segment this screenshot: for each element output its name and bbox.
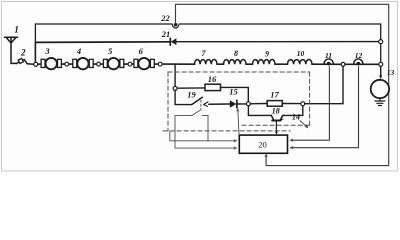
detector 6 [134, 58, 154, 69]
inductor L9 [253, 60, 276, 65]
box 20 [239, 135, 287, 153]
tap 11 (loop with tap dot) [324, 59, 333, 64]
detector 4 [73, 58, 93, 69]
wire S19b right terminal down to box input A [207, 115, 209, 140]
detector 3 [41, 58, 61, 69]
node a2 [97, 62, 101, 66]
wire block-14 output to box 20 left input 1 [170, 131, 236, 141]
svg-text:4: 4 [76, 46, 81, 56]
node a5 (between taps) [341, 62, 345, 66]
resistor R17 [267, 101, 282, 107]
svg-text:18: 18 [272, 107, 280, 116]
linkage dashes S19 to S19b [200, 100, 202, 111]
svg-text:11: 11 [325, 51, 332, 60]
dashed block 14 left edge [167, 72, 169, 131]
dashed block 14 top edge [168, 71, 310, 73]
wire antenna to switch [11, 62, 16, 64]
wire diode bus (line C) [35, 41, 170, 44]
inductor L7 [195, 60, 218, 65]
svg-text:17: 17 [270, 90, 279, 100]
svg-text:20: 20 [258, 139, 267, 149]
wire upper bus (line B) [35, 23, 171, 25]
transistor 18 [271, 115, 283, 120]
svg-text:15: 15 [229, 87, 238, 97]
inductor L8 [224, 60, 247, 65]
svg-text:9: 9 [265, 49, 269, 58]
wire tap11 to box 20 right input 1 [292, 67, 330, 141]
wire junction drop at x=175 [174, 64, 176, 86]
diode VD15 [230, 100, 247, 107]
dashed block 14 right edge [309, 72, 311, 125]
node a1 [65, 62, 69, 66]
svg-text:2: 2 [20, 48, 26, 58]
svg-text:13: 13 [387, 68, 395, 77]
wire arrow into equivalent antenna 13 [380, 66, 382, 76]
wire tap12 to box 20 right input 2 [292, 67, 359, 148]
switch S19b (linked auxiliary contact) [175, 110, 208, 115]
svg-text:12: 12 [355, 51, 363, 60]
svg-text:8: 8 [234, 49, 238, 58]
svg-text:22: 22 [160, 13, 170, 23]
wire node D to tap node a5 [305, 66, 343, 104]
wire node B to R16 [177, 87, 205, 89]
dashed block inner bottom edge [242, 124, 310, 126]
arrow into box 20 top [275, 131, 278, 135]
node D [301, 102, 305, 106]
scan border frame [2, 2, 398, 172]
wire R16 to node C [221, 87, 249, 101]
svg-text:6: 6 [139, 46, 144, 56]
wire node C to R17 [250, 103, 267, 105]
node B (tee to R16) [173, 86, 177, 90]
main wire y=64.1 segments [38, 63, 379, 65]
wire node D down to transistor emitter [283, 106, 303, 116]
resistor R16 [205, 84, 221, 90]
wire node C down to transistor collector [248, 106, 271, 116]
arrow into box 20 bottom [264, 154, 268, 158]
tap 12 (loop with tap dot) [354, 59, 363, 64]
transistor 18 emitter arrow [280, 116, 285, 120]
svg-text:1: 1 [14, 25, 19, 35]
switch S19 [192, 97, 230, 106]
svg-text:16: 16 [208, 74, 217, 84]
detector 5 [103, 58, 123, 69]
node right bus junction [379, 40, 383, 44]
wire right riser down [380, 44, 382, 63]
wire R17 to node D [282, 103, 301, 105]
antenna 1 [5, 37, 18, 63]
node main wire right end [379, 62, 383, 66]
svg-text:19: 19 [187, 89, 196, 99]
ground [375, 99, 385, 106]
equivalent antenna 13 [371, 80, 389, 98]
node 22 dot [174, 23, 178, 27]
node A (junction of risers and main wire) [34, 62, 38, 66]
wire base to box 20 [275, 122, 277, 133]
wire hump at 22 [172, 24, 179, 28]
node a4 [158, 62, 162, 66]
svg-text:10: 10 [297, 49, 305, 58]
wire S19b left terminal to box 20 left input 2 [175, 116, 235, 149]
node a3 [128, 62, 132, 66]
wire feedback top loop [176, 4, 389, 165]
node C [246, 102, 250, 106]
dashed block 14 bottom edge [163, 130, 290, 132]
wire riser to upper bus [34, 24, 36, 62]
svg-text:3: 3 [44, 46, 50, 56]
inductor L10 [288, 60, 313, 65]
svg-text:14: 14 [292, 113, 300, 122]
wire control arrow up to diode 15 cathode node [238, 111, 239, 135]
svg-text:7: 7 [202, 49, 207, 58]
diode VD21 [170, 38, 176, 45]
wire node B down to switch row [175, 90, 192, 104]
switch S2 [16, 58, 33, 64]
svg-text:21: 21 [161, 29, 171, 39]
svg-text:5: 5 [108, 46, 113, 56]
